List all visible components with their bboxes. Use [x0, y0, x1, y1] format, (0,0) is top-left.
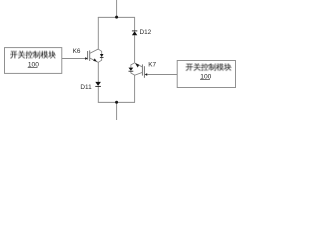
right box text 开关控制模块: [186, 63, 232, 71]
right control module box: [177, 61, 235, 88]
wire: left rail middle (K6 to D11): [97, 62, 99, 82]
K6 gate arrowhead: [85, 57, 88, 60]
wire: right rail middle (D12 to K7): [134, 35, 136, 62]
diode D11: [95, 82, 101, 87]
wire: bottom feed: [116, 102, 118, 120]
node: top junction dot: [115, 16, 118, 19]
wire: right rail lower (K7 to bottom bar): [134, 75, 136, 102]
node: bottom junction dot: [115, 101, 118, 104]
wire: bottom bar: [98, 101, 135, 103]
wire: K6 gate lead from left box: [62, 58, 86, 60]
K7 gate arrowhead: [145, 73, 148, 76]
wire: left rail lower (D11 to bottom bar): [97, 87, 99, 103]
left 100 underline: [28, 66, 38, 68]
wire: top bar: [98, 16, 135, 18]
diode D12: [132, 31, 137, 35]
wire: right rail upper (top bar to D12): [134, 17, 136, 31]
left control module box: [5, 48, 62, 74]
transistor K6: [85, 49, 103, 62]
svg-text:D11: D11: [80, 84, 92, 91]
left box text 开关控制模块: [10, 51, 56, 59]
K6 antiparallel diode: [100, 54, 104, 57]
svg-text:K6: K6: [73, 48, 81, 55]
K7 emitter arrow: [135, 63, 139, 67]
K7 antiparallel diode: [129, 68, 134, 71]
K6 emitter arrow: [93, 58, 97, 61]
svg-text:D12: D12: [140, 29, 152, 36]
wire: K7 gate lead from right box: [146, 74, 177, 76]
wire: top feed: [116, 0, 118, 17]
wire: left rail upper: [97, 17, 99, 49]
svg-text:K7: K7: [148, 62, 156, 69]
right 100 underline: [200, 79, 210, 81]
transistor K7: [129, 63, 148, 78]
